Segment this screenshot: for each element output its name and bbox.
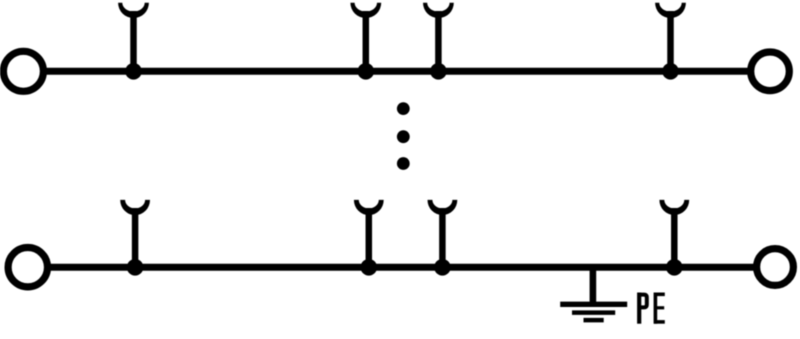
terminal circle (top rail, left) — [3, 51, 43, 91]
continuation dots (repeated poles) — [397, 102, 410, 170]
clamp contact 2 (top rail) — [350, 3, 381, 72]
junction dot 2 (bottom rail) — [361, 259, 378, 276]
junction dot 2 (top rail) — [358, 63, 375, 80]
label PE — [638, 293, 665, 324]
junction dot 3 (bottom rail) — [434, 259, 451, 276]
clamp contact 1 (bottom rail) — [120, 200, 150, 267]
terminal circle (top rail, right) — [751, 52, 790, 91]
junction dot 3 (top rail) — [430, 63, 447, 80]
wire: bottom rail — [46, 264, 757, 271]
junction dot 1 (bottom rail) — [127, 259, 144, 276]
terminal circle (bottom rail, right) — [757, 249, 794, 286]
clamp contact 4 (bottom rail) — [659, 200, 689, 267]
clamp contact 3 (top rail) — [423, 3, 454, 72]
clamp contact 2 (bottom rail) — [354, 200, 384, 267]
junction dot 4 (bottom rail) — [666, 259, 683, 276]
wire: top rail — [42, 68, 752, 75]
clamp contact 1 (top rail) — [118, 3, 149, 72]
clamp contact 3 (bottom rail) — [428, 200, 458, 267]
junction dot 4 (top rail) — [662, 63, 679, 80]
terminal circle (bottom rail, left) — [8, 248, 47, 287]
ground (PE earth symbol) — [560, 267, 627, 320]
junction dot 1 (top rail) — [125, 63, 142, 80]
clamp contact 4 (top rail) — [655, 3, 686, 72]
